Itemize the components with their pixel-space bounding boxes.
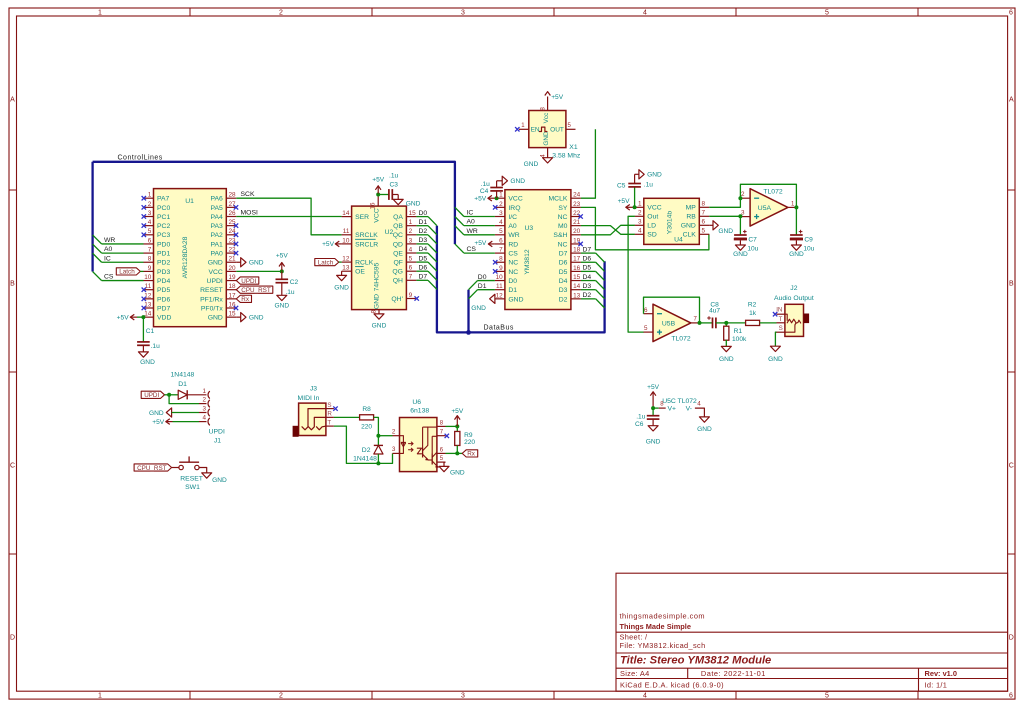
svg-text:220: 220 (464, 439, 475, 446)
svg-text:QG: QG (392, 269, 403, 276)
svg-text:12: 12 (496, 292, 504, 299)
svg-text:+5V: +5V (276, 252, 289, 259)
svg-text:D2: D2 (559, 296, 568, 303)
svg-text:GND: GND (681, 223, 696, 230)
svg-text:NC: NC (558, 241, 568, 248)
svg-text:5: 5 (409, 256, 413, 263)
svg-text:VCC: VCC (508, 196, 522, 203)
svg-text:J3: J3 (310, 386, 317, 393)
svg-text:6: 6 (702, 219, 706, 226)
svg-text:GND: GND (208, 260, 223, 267)
svg-text:D6: D6 (559, 260, 568, 267)
svg-text:GND: GND (646, 439, 661, 446)
svg-text:3: 3 (499, 210, 503, 217)
svg-text:D: D (10, 634, 15, 641)
svg-text:QE: QE (393, 250, 403, 257)
svg-text:5: 5 (702, 228, 706, 235)
svg-text:12: 12 (342, 256, 350, 263)
svg-text:.1u: .1u (481, 181, 490, 188)
svg-text:D1: D1 (419, 219, 428, 226)
svg-text:14: 14 (573, 283, 581, 290)
svg-text:CS: CS (508, 251, 518, 258)
svg-text:GND: GND (733, 251, 748, 258)
svg-text:PC2: PC2 (157, 223, 170, 230)
svg-text:U3: U3 (524, 225, 533, 232)
svg-text:I/C: I/C (508, 214, 517, 221)
svg-text:thingsmadesimple.com: thingsmadesimple.com (620, 611, 706, 620)
svg-text:Id: 1/1: Id: 1/1 (925, 680, 948, 689)
svg-text:T: T (327, 419, 331, 426)
svg-text:GND: GND (718, 228, 733, 235)
svg-text:C4: C4 (480, 188, 489, 195)
svg-text:Rx: Rx (241, 296, 250, 303)
svg-text:.1u: .1u (636, 413, 645, 420)
svg-text:PD6: PD6 (157, 296, 170, 303)
svg-text:J2: J2 (790, 285, 797, 292)
svg-text:OUT: OUT (550, 127, 564, 134)
svg-text:CLK: CLK (683, 232, 697, 239)
svg-text:1: 1 (409, 219, 413, 226)
svg-text:14: 14 (342, 210, 350, 217)
svg-text:PF0/Tx: PF0/Tx (201, 305, 224, 312)
svg-text:Rev: v1.0: Rev: v1.0 (925, 669, 957, 678)
svg-text:5: 5 (825, 692, 829, 699)
svg-text:14: 14 (144, 311, 152, 318)
svg-text:PC1: PC1 (157, 214, 170, 221)
svg-text:10: 10 (342, 237, 350, 244)
svg-text:5: 5 (825, 10, 829, 17)
svg-text:S: S (779, 325, 783, 332)
svg-text:PA2: PA2 (210, 232, 223, 239)
svg-text:QF: QF (393, 260, 402, 267)
svg-text:NC: NC (508, 260, 518, 267)
svg-text:15: 15 (229, 311, 237, 318)
svg-text:LD: LD (647, 223, 656, 230)
svg-text:R: R (327, 411, 332, 418)
svg-text:NC: NC (558, 214, 568, 221)
svg-text:6: 6 (1009, 10, 1013, 17)
svg-text:GND: GND (768, 356, 783, 363)
svg-text:Rx: Rx (467, 451, 476, 458)
svg-text:19: 19 (229, 274, 237, 281)
svg-text:7: 7 (148, 247, 152, 254)
svg-text:PA5: PA5 (210, 205, 223, 212)
svg-text:6: 6 (409, 265, 413, 272)
svg-text:C3: C3 (390, 181, 399, 188)
svg-text:UPDI: UPDI (209, 428, 225, 435)
svg-text:3: 3 (461, 10, 465, 17)
svg-text:3: 3 (461, 692, 465, 699)
svg-text:V-: V- (686, 406, 692, 413)
svg-text:D7: D7 (583, 246, 592, 253)
svg-text:C5: C5 (617, 182, 626, 189)
svg-text:7: 7 (499, 247, 503, 254)
svg-text:D6: D6 (419, 264, 428, 271)
svg-text:AVR128DA28: AVR128DA28 (182, 236, 189, 278)
svg-text:13: 13 (342, 265, 350, 272)
svg-text:WR: WR (508, 232, 519, 239)
svg-text:C1: C1 (146, 328, 155, 335)
svg-text:3: 3 (638, 219, 642, 226)
svg-text:PA1: PA1 (210, 241, 223, 248)
svg-text:GND: GND (149, 410, 164, 417)
svg-text:PA0: PA0 (210, 251, 223, 258)
svg-text:GND: GND (697, 426, 712, 433)
svg-text:PF1/Rx: PF1/Rx (200, 296, 223, 303)
svg-text:220: 220 (361, 424, 372, 431)
svg-text:PC3: PC3 (157, 232, 170, 239)
svg-text:Y3014b: Y3014b (666, 211, 673, 235)
svg-text:WR: WR (467, 228, 478, 235)
svg-text:3: 3 (409, 237, 413, 244)
svg-text:RB: RB (686, 214, 696, 221)
svg-text:SRCLR: SRCLR (355, 241, 378, 248)
svg-text:TL072: TL072 (671, 336, 690, 343)
svg-text:PD5: PD5 (157, 287, 170, 294)
svg-text:.1u: .1u (389, 172, 398, 179)
svg-text:PA6: PA6 (210, 196, 223, 203)
svg-text:D4: D4 (419, 246, 428, 253)
svg-text:A: A (10, 96, 15, 103)
svg-text:D3: D3 (583, 283, 592, 290)
svg-text:PC0: PC0 (157, 205, 170, 212)
svg-text:U1: U1 (185, 198, 194, 205)
svg-text:4: 4 (638, 228, 642, 235)
svg-text:PA7: PA7 (157, 196, 170, 203)
svg-text:ControlLines: ControlLines (118, 154, 163, 161)
svg-text:C9: C9 (804, 236, 813, 243)
svg-text:X1: X1 (569, 144, 578, 151)
svg-text:SCK: SCK (241, 191, 255, 198)
svg-text:J1: J1 (214, 437, 221, 444)
svg-text:D2: D2 (419, 228, 428, 235)
svg-text:10u: 10u (803, 245, 814, 252)
svg-text:GND: GND (406, 200, 421, 207)
svg-text:9: 9 (409, 292, 413, 299)
svg-text:Vcc: Vcc (543, 112, 550, 123)
svg-text:1: 1 (499, 192, 503, 199)
svg-text:1: 1 (638, 201, 642, 208)
svg-text:10: 10 (144, 274, 152, 281)
svg-text:S&H: S&H (553, 232, 567, 239)
svg-text:GND: GND (543, 131, 550, 146)
svg-text:A: A (1009, 96, 1014, 103)
svg-text:SW1: SW1 (185, 484, 200, 491)
svg-text:6: 6 (148, 237, 152, 244)
svg-text:D1: D1 (478, 283, 487, 290)
svg-text:MCLK: MCLK (549, 196, 568, 203)
svg-text:PD7: PD7 (157, 305, 170, 312)
svg-text:11: 11 (145, 283, 152, 290)
svg-text:Audio Output: Audio Output (774, 295, 814, 302)
svg-text:+5V: +5V (474, 196, 487, 203)
svg-text:D0: D0 (508, 278, 517, 285)
svg-text:D4: D4 (583, 274, 592, 281)
svg-text:+5V: +5V (322, 241, 335, 248)
svg-text:4: 4 (499, 219, 503, 226)
svg-text:C: C (10, 462, 15, 469)
svg-text:8: 8 (371, 310, 378, 314)
svg-text:4u7: 4u7 (709, 308, 720, 315)
svg-text:+5V: +5V (152, 419, 165, 426)
svg-text:RESET: RESET (180, 475, 203, 482)
svg-text:1: 1 (202, 388, 206, 395)
svg-text:9: 9 (499, 265, 503, 272)
svg-text:+5V: +5V (451, 408, 464, 415)
svg-text:4: 4 (409, 246, 413, 253)
svg-text:TL072: TL072 (763, 188, 782, 195)
svg-text:A0: A0 (508, 223, 517, 230)
svg-text:U5C TL072: U5C TL072 (662, 398, 697, 405)
svg-text:A0: A0 (467, 219, 476, 226)
svg-text:M0: M0 (558, 223, 568, 230)
svg-text:VCC: VCC (208, 269, 222, 276)
svg-text:5: 5 (644, 325, 648, 332)
svg-text:17: 17 (229, 292, 237, 299)
svg-text:R8: R8 (362, 406, 371, 413)
svg-text:1: 1 (98, 10, 102, 17)
svg-text:16: 16 (573, 265, 581, 272)
svg-text:GND: GND (249, 260, 264, 267)
svg-text:23: 23 (573, 201, 581, 208)
svg-text:C2: C2 (290, 279, 299, 286)
svg-text:6: 6 (1009, 692, 1013, 699)
svg-text:GND: GND (647, 172, 662, 179)
svg-text:15: 15 (409, 210, 417, 217)
svg-text:GND: GND (274, 303, 289, 310)
svg-text:6: 6 (644, 307, 648, 314)
svg-text:PD4: PD4 (157, 278, 170, 285)
svg-text:9: 9 (148, 265, 152, 272)
svg-text:11: 11 (496, 283, 503, 290)
svg-text:RESET: RESET (200, 287, 223, 294)
svg-text:Things Made Simple: Things Made Simple (620, 622, 691, 631)
svg-text:D2: D2 (362, 447, 371, 454)
svg-text:1k: 1k (749, 310, 757, 317)
svg-text:Title: Stereo YM3812 Module: Title: Stereo YM3812 Module (620, 654, 771, 666)
svg-text:EN: EN (531, 127, 540, 134)
svg-text:15: 15 (573, 274, 581, 281)
svg-text:QH: QH (393, 278, 403, 285)
svg-text:2: 2 (499, 201, 503, 208)
svg-text:IC: IC (104, 255, 111, 262)
svg-text:OE: OE (355, 269, 365, 276)
svg-text:UPDI: UPDI (207, 278, 223, 285)
svg-text:3.58 Mhz: 3.58 Mhz (552, 153, 581, 160)
svg-text:Latch: Latch (119, 269, 135, 276)
svg-text:PD2: PD2 (157, 260, 170, 267)
svg-text:UPDI: UPDI (241, 278, 256, 285)
svg-text:1: 1 (148, 192, 152, 199)
svg-text:GND: GND (510, 178, 525, 185)
svg-text:GND: GND (212, 477, 227, 484)
svg-text:C6: C6 (635, 421, 644, 428)
svg-text:SY: SY (558, 205, 568, 212)
svg-text:GND: GND (334, 285, 349, 292)
svg-text:UPDI: UPDI (144, 392, 159, 399)
svg-text:A0: A0 (104, 246, 113, 253)
svg-text:D5: D5 (419, 255, 428, 262)
svg-text:13: 13 (573, 292, 581, 299)
svg-text:+5V: +5V (117, 314, 130, 321)
svg-text:2: 2 (392, 428, 396, 435)
svg-text:2: 2 (148, 201, 152, 208)
svg-text:GND: GND (471, 305, 486, 312)
svg-text:D0: D0 (419, 210, 428, 217)
svg-text:100k: 100k (732, 336, 747, 343)
svg-text:QC: QC (393, 232, 403, 239)
svg-text:GND: GND (249, 315, 264, 322)
svg-text:7: 7 (409, 274, 413, 281)
svg-text:PD0: PD0 (157, 241, 170, 248)
svg-text:D5: D5 (583, 265, 592, 272)
svg-text:3: 3 (392, 446, 396, 453)
svg-text:16: 16 (370, 202, 377, 210)
svg-text:GND: GND (208, 315, 223, 322)
svg-text:2: 2 (409, 228, 413, 235)
svg-text:20: 20 (573, 228, 581, 235)
svg-text:D6: D6 (583, 255, 592, 262)
svg-text:V+: V+ (668, 406, 677, 413)
svg-text:D7: D7 (419, 274, 428, 281)
svg-text:5: 5 (499, 228, 503, 235)
svg-text:CPU_RST: CPU_RST (137, 465, 167, 472)
svg-text:2: 2 (279, 10, 283, 17)
svg-text:D: D (1009, 634, 1014, 641)
svg-text:21: 21 (573, 219, 581, 226)
svg-text:D3: D3 (559, 287, 568, 294)
svg-text:D5: D5 (559, 269, 568, 276)
svg-text:Latch: Latch (318, 259, 334, 266)
svg-text:3: 3 (202, 406, 206, 413)
svg-text:8: 8 (499, 256, 503, 263)
svg-text:KiCad E.D.A. kicad (6.0.9-0): KiCad E.D.A. kicad (6.0.9-0) (620, 680, 724, 689)
svg-text:C7: C7 (748, 236, 757, 243)
svg-text:C: C (1009, 462, 1014, 469)
svg-text:DataBus: DataBus (484, 325, 514, 332)
svg-text:D2: D2 (583, 292, 592, 299)
svg-text:File: YM3812.kicad_sch: File: YM3812.kicad_sch (620, 641, 706, 650)
svg-text:D0: D0 (478, 274, 487, 281)
svg-text:U5B: U5B (662, 320, 676, 327)
svg-text:MP: MP (686, 205, 697, 212)
svg-text:8: 8 (148, 256, 152, 263)
svg-text:6n138: 6n138 (410, 407, 429, 414)
svg-text:+5V: +5V (474, 240, 487, 247)
svg-text:D4: D4 (559, 278, 568, 285)
svg-text:4: 4 (643, 10, 647, 17)
svg-text:D3: D3 (419, 237, 428, 244)
svg-text:VDD: VDD (157, 315, 171, 322)
svg-text:74HC595: 74HC595 (374, 262, 381, 291)
svg-text:GND: GND (719, 356, 734, 363)
svg-text:11: 11 (343, 228, 350, 235)
svg-text:2: 2 (279, 692, 283, 699)
svg-text:D1: D1 (508, 287, 517, 294)
svg-text:U6: U6 (412, 399, 421, 406)
svg-text:PD3: PD3 (157, 269, 170, 276)
svg-text:8: 8 (702, 201, 706, 208)
svg-text:4: 4 (697, 401, 701, 408)
svg-text:2: 2 (638, 210, 642, 217)
svg-text:QH': QH' (391, 296, 403, 303)
svg-text:5: 5 (148, 228, 152, 235)
svg-text:21: 21 (229, 256, 237, 263)
svg-text:17: 17 (573, 256, 581, 263)
svg-text:SER: SER (355, 214, 369, 221)
svg-text:QD: QD (393, 241, 403, 248)
svg-text:CS: CS (104, 274, 114, 281)
svg-text:IC: IC (467, 210, 474, 217)
svg-text:GND: GND (372, 322, 387, 329)
svg-text:+5V: +5V (647, 384, 660, 391)
svg-text:B: B (1009, 280, 1014, 287)
svg-text:.1u: .1u (151, 343, 160, 350)
svg-text:GND: GND (450, 470, 465, 477)
svg-text:PA4: PA4 (210, 214, 223, 221)
svg-text:3: 3 (148, 210, 152, 217)
svg-text:RCLK: RCLK (355, 260, 374, 267)
svg-text:24: 24 (573, 192, 581, 199)
svg-text:GND: GND (140, 359, 155, 366)
svg-text:T: T (779, 316, 783, 323)
svg-text:1: 1 (98, 692, 102, 699)
svg-text:YM3812: YM3812 (524, 249, 531, 275)
svg-text:GND: GND (524, 161, 539, 168)
svg-text:26: 26 (229, 210, 237, 217)
svg-text:QA: QA (393, 214, 403, 221)
svg-text:6: 6 (499, 237, 503, 244)
svg-text:MIDI In: MIDI In (298, 395, 320, 402)
svg-text:28: 28 (229, 192, 237, 199)
svg-text:GND: GND (508, 296, 523, 303)
svg-text:QB: QB (393, 223, 403, 230)
svg-text:2: 2 (202, 397, 206, 404)
svg-text:R2: R2 (748, 301, 757, 308)
svg-text:7: 7 (702, 210, 706, 217)
svg-text:S: S (327, 402, 331, 409)
svg-text:4: 4 (643, 692, 647, 699)
svg-text:B: B (10, 280, 15, 287)
svg-text:18: 18 (573, 247, 581, 254)
svg-text:WR: WR (104, 237, 115, 244)
svg-text:NC: NC (508, 269, 518, 276)
svg-text:SRCLK: SRCLK (355, 232, 378, 239)
svg-text:RD: RD (508, 241, 518, 248)
svg-text:PD1: PD1 (157, 251, 170, 258)
svg-text:R1: R1 (734, 328, 743, 335)
svg-text:PA3: PA3 (210, 223, 223, 230)
svg-text:.1u: .1u (644, 182, 653, 189)
svg-text:+5V: +5V (551, 94, 564, 101)
svg-text:+5V: +5V (618, 198, 631, 205)
svg-text:4: 4 (202, 415, 206, 422)
svg-text:10: 10 (496, 274, 504, 281)
svg-text:CPU_RST: CPU_RST (241, 287, 271, 294)
svg-text:Date: 2022-11-01: Date: 2022-11-01 (701, 669, 766, 678)
svg-text:Out: Out (647, 214, 658, 221)
svg-text:U5A: U5A (758, 205, 772, 212)
svg-text:4: 4 (148, 219, 152, 226)
svg-text:GND: GND (374, 294, 381, 309)
svg-text:18: 18 (229, 283, 237, 290)
svg-text:1N4148: 1N4148 (171, 372, 195, 379)
svg-text:8: 8 (540, 107, 547, 111)
svg-text:10u: 10u (747, 245, 758, 252)
svg-text:20: 20 (229, 265, 237, 272)
svg-text:VCC: VCC (647, 205, 661, 212)
svg-text:D7: D7 (559, 251, 568, 258)
